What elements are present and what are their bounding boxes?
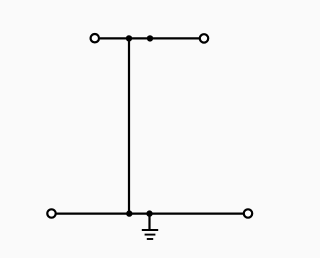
terminal circle bottom-left [47,209,55,217]
junction bottom A [126,210,132,216]
junction top A [126,35,132,41]
terminal circle bottom-right [244,209,252,217]
junction top B [147,35,153,41]
terminal circle top-right [200,34,208,42]
junction bottom B [146,210,152,216]
wire top horizontal [100,37,199,39]
wire vertical [128,38,130,213]
terminal circle top-left [91,34,99,42]
ground [142,214,158,239]
wire bottom horizontal [57,213,244,215]
